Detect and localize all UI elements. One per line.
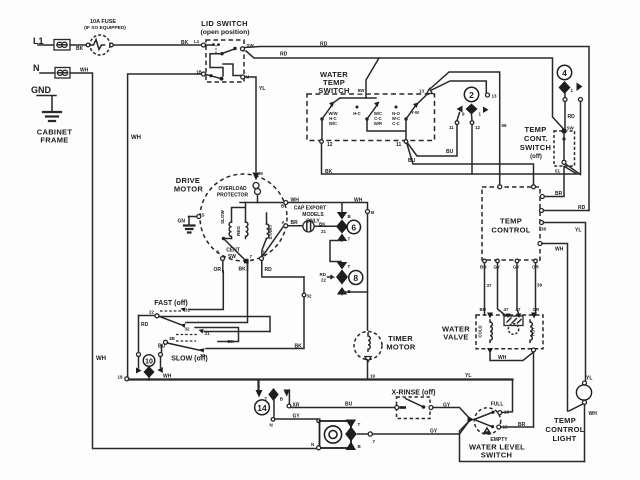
svg-text:13: 13 xyxy=(492,94,498,99)
svg-text:47: 47 xyxy=(504,307,510,312)
svg-text:L1: L1 xyxy=(194,39,200,44)
svg-text:GN: GN xyxy=(178,219,186,225)
svg-text:TEMP: TEMP xyxy=(500,217,522,226)
svg-text:FAST (off): FAST (off) xyxy=(154,300,187,307)
svg-text:11: 11 xyxy=(449,125,454,130)
svg-text:YL: YL xyxy=(465,373,471,379)
svg-text:39: 39 xyxy=(537,283,543,288)
svg-text:BK: BK xyxy=(228,339,235,344)
svg-text:YL: YL xyxy=(586,376,592,382)
svg-text:32: 32 xyxy=(185,327,191,332)
svg-text:13: 13 xyxy=(419,89,425,94)
svg-text:WH: WH xyxy=(163,374,172,380)
svg-text:WH: WH xyxy=(96,356,106,362)
svg-text:SW: SW xyxy=(567,126,575,131)
svg-text:OVERLOAD: OVERLOAD xyxy=(218,186,247,192)
svg-text:X-RINSE (off): X-RINSE (off) xyxy=(392,390,436,397)
svg-text:RD: RD xyxy=(280,52,288,58)
svg-text:COLD: COLD xyxy=(478,325,483,337)
svg-text:T: T xyxy=(348,264,351,269)
svg-text:FULL: FULL xyxy=(491,402,504,408)
svg-text:LIGHT: LIGHT xyxy=(553,434,577,443)
svg-text:10: 10 xyxy=(145,359,153,366)
svg-text:T: T xyxy=(358,422,361,427)
svg-text:BU: BU xyxy=(480,265,487,270)
svg-text:RD: RD xyxy=(568,114,576,120)
svg-text:H-C: H-C xyxy=(353,111,360,116)
svg-text:3B: 3B xyxy=(169,336,176,341)
svg-text:12: 12 xyxy=(475,125,481,130)
svg-text:GY: GY xyxy=(293,414,301,420)
svg-text:BU: BU xyxy=(446,149,454,155)
svg-text:CONTROL: CONTROL xyxy=(491,226,530,235)
svg-text:N: N xyxy=(33,63,40,73)
svg-text:M: M xyxy=(259,171,263,176)
svg-text:CONT.: CONT. xyxy=(524,134,548,143)
svg-text:RD: RD xyxy=(320,272,327,277)
svg-text:N: N xyxy=(270,423,273,428)
svg-text:BK: BK xyxy=(295,344,303,350)
svg-text:22: 22 xyxy=(149,310,155,315)
svg-text:RD: RD xyxy=(320,42,328,48)
svg-text:RD: RD xyxy=(265,267,273,273)
svg-text:MODELS: MODELS xyxy=(302,212,324,218)
svg-text:BR: BR xyxy=(555,191,563,197)
svg-text:BU: BU xyxy=(345,402,353,408)
svg-text:TEMP: TEMP xyxy=(554,416,576,425)
svg-text:WH: WH xyxy=(354,198,363,204)
svg-text:GY: GY xyxy=(430,429,438,435)
svg-text:SWITCH: SWITCH xyxy=(481,451,512,460)
svg-text:WH: WH xyxy=(131,135,141,141)
svg-text:BK: BK xyxy=(319,221,326,226)
svg-text:RD: RD xyxy=(141,322,149,328)
svg-text:BU: BU xyxy=(480,307,487,312)
svg-text:WH: WH xyxy=(291,198,300,204)
svg-text:CAP EXPORT: CAP EXPORT xyxy=(294,206,326,212)
svg-text:N: N xyxy=(311,442,314,447)
svg-text:RD: RD xyxy=(578,205,586,211)
svg-text:8: 8 xyxy=(353,273,358,283)
svg-text:BR: BR xyxy=(518,422,526,428)
svg-text:11: 11 xyxy=(396,142,402,148)
svg-text:WH: WH xyxy=(589,411,598,417)
svg-text:12: 12 xyxy=(327,142,333,148)
svg-text:LID SWITCH: LID SWITCH xyxy=(201,19,248,28)
svg-text:37: 37 xyxy=(487,283,493,288)
svg-text:SLOW (off): SLOW (off) xyxy=(171,356,208,363)
svg-text:MOTOR: MOTOR xyxy=(174,185,204,194)
svg-text:REG: REG xyxy=(236,226,241,236)
svg-text:T: T xyxy=(348,237,351,242)
svg-text:BK: BK xyxy=(76,46,84,52)
svg-text:47: 47 xyxy=(516,307,522,312)
svg-text:OR: OR xyxy=(533,307,541,312)
svg-text:22: 22 xyxy=(321,278,327,283)
svg-text:BK: BK xyxy=(181,40,189,46)
svg-text:BK: BK xyxy=(239,267,247,273)
svg-text:BK: BK xyxy=(325,169,333,175)
svg-text:TEMP: TEMP xyxy=(524,125,546,134)
svg-text:51: 51 xyxy=(555,169,561,174)
svg-text:32: 32 xyxy=(307,294,313,299)
svg-text:FRAME: FRAME xyxy=(40,136,68,145)
svg-text:SWITCH: SWITCH xyxy=(520,143,551,152)
svg-text:W/C: W/C xyxy=(329,121,337,126)
svg-text:BU: BU xyxy=(408,158,416,164)
svg-text:18: 18 xyxy=(118,375,124,380)
svg-text:(IF SO EQUIPPED): (IF SO EQUIPPED) xyxy=(84,25,126,31)
svg-text:W/R: W/R xyxy=(374,121,382,126)
svg-text:21: 21 xyxy=(321,229,327,234)
svg-text:ONLY: ONLY xyxy=(306,219,320,225)
svg-text:YL: YL xyxy=(575,228,581,234)
svg-text:C-C: C-C xyxy=(392,121,399,126)
svg-text:OR: OR xyxy=(214,267,222,273)
svg-text:14: 14 xyxy=(257,403,267,413)
svg-text:SW: SW xyxy=(228,254,236,260)
svg-text:19: 19 xyxy=(370,374,376,379)
svg-text:2: 2 xyxy=(469,90,474,100)
svg-text:10A FUSE: 10A FUSE xyxy=(90,19,116,25)
svg-text:59: 59 xyxy=(502,123,508,128)
svg-text:YL: YL xyxy=(259,86,265,92)
svg-text:(off): (off) xyxy=(530,154,542,160)
svg-text:38: 38 xyxy=(541,227,547,232)
svg-text:VALVE: VALVE xyxy=(443,333,468,342)
svg-text:Y-W: Y-W xyxy=(411,110,419,115)
svg-text:S: S xyxy=(202,213,205,218)
svg-text:GND: GND xyxy=(31,85,52,95)
svg-text:MOTOR: MOTOR xyxy=(386,343,416,352)
svg-text:WH: WH xyxy=(555,247,564,253)
svg-text:(open position): (open position) xyxy=(200,29,249,36)
svg-text:SLOW: SLOW xyxy=(220,209,225,223)
svg-text:9W: 9W xyxy=(358,88,366,93)
svg-text:START: START xyxy=(268,224,273,239)
svg-text:PROTECTOR: PROTECTOR xyxy=(217,193,249,199)
svg-text:4: 4 xyxy=(562,68,567,78)
svg-text:WH: WH xyxy=(498,355,507,361)
svg-text:CONTROL: CONTROL xyxy=(545,425,584,434)
svg-text:6: 6 xyxy=(351,223,356,233)
